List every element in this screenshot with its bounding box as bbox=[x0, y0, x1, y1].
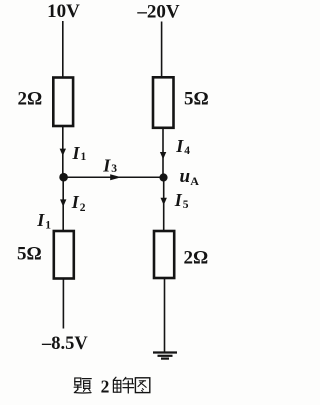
wire node A to resistor R2 bbox=[62, 177, 64, 231]
current arrow I3 bbox=[110, 174, 121, 180]
current label I1 (branch label above R2) bbox=[36, 210, 51, 231]
svg-text:10V: 10V bbox=[47, 1, 80, 22]
glyph 解 bbox=[113, 377, 133, 393]
wire from R1 to node A bbox=[62, 126, 64, 174]
svg-text:1: 1 bbox=[81, 151, 87, 163]
wire node to node horizontal bbox=[64, 176, 164, 178]
glyph 图 bbox=[135, 378, 149, 393]
svg-text:2Ω: 2Ω bbox=[184, 248, 209, 269]
current label I3 bbox=[102, 155, 117, 175]
wire from -20V to resistor R3 bbox=[161, 22, 163, 79]
wire node uA to resistor R4 bbox=[163, 178, 165, 232]
wire R3 to node uA bbox=[162, 128, 164, 175]
svg-text:u: u bbox=[180, 166, 191, 187]
svg-text:I: I bbox=[36, 210, 45, 230]
svg-text:5: 5 bbox=[183, 199, 189, 211]
svg-text:I: I bbox=[175, 136, 184, 156]
svg-text:5Ω: 5Ω bbox=[184, 89, 209, 110]
svg-text:I: I bbox=[72, 143, 81, 163]
svg-text:2: 2 bbox=[101, 376, 110, 396]
node junction uA bbox=[159, 173, 167, 181]
current arrow I4 bbox=[160, 152, 166, 159]
svg-text:A: A bbox=[190, 174, 199, 188]
node label uA bbox=[180, 166, 200, 188]
current label I2 bbox=[71, 192, 86, 214]
wire R4 to ground bbox=[164, 278, 166, 352]
ground bbox=[153, 353, 177, 359]
resistor R1 2Ω bbox=[53, 78, 73, 127]
svg-text:5Ω: 5Ω bbox=[17, 244, 42, 265]
current label I1 bbox=[72, 143, 87, 163]
svg-text:2Ω: 2Ω bbox=[18, 89, 43, 110]
svg-text:I: I bbox=[71, 192, 80, 212]
node junction left bbox=[59, 173, 68, 182]
resistor R2 5Ω bbox=[54, 231, 74, 279]
svg-text:I: I bbox=[102, 155, 111, 175]
current arrow I5 bbox=[161, 198, 167, 205]
svg-text:–20V: –20V bbox=[136, 2, 180, 23]
svg-text:–8.5V: –8.5V bbox=[41, 334, 88, 354]
caption 题 2 解图 bbox=[74, 376, 150, 396]
svg-text:4: 4 bbox=[184, 145, 190, 157]
current arrow I2 bbox=[60, 199, 66, 206]
current label I5 bbox=[174, 190, 189, 211]
svg-text:I: I bbox=[174, 190, 183, 210]
wire R2 to -8.5V terminal bbox=[62, 279, 64, 329]
svg-text:2: 2 bbox=[80, 202, 86, 214]
resistor R3 5Ω bbox=[153, 77, 174, 128]
resistor R4 2Ω bbox=[154, 231, 174, 278]
svg-text:1: 1 bbox=[45, 220, 51, 232]
current arrow I1 bbox=[60, 149, 66, 156]
current label I4 bbox=[175, 136, 190, 157]
glyph 题 bbox=[74, 378, 91, 393]
wire from 10V to resistor R1 bbox=[62, 21, 64, 78]
svg-text:3: 3 bbox=[111, 163, 117, 175]
